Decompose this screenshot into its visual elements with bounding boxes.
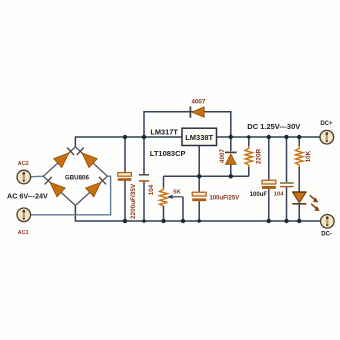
svg-text:AC1: AC1 [18, 230, 29, 236]
svg-text:LM338T: LM338T [185, 133, 213, 142]
svg-text:AC2: AC2 [18, 161, 29, 167]
svg-text:DC-: DC- [321, 231, 332, 237]
svg-text:AC 6V---24V: AC 6V---24V [7, 192, 48, 201]
svg-text:10K: 10K [305, 150, 312, 162]
svg-text:LM317T: LM317T [150, 127, 178, 136]
svg-text:104: 104 [148, 184, 155, 195]
svg-text:104: 104 [274, 191, 284, 197]
svg-text:4007: 4007 [192, 98, 206, 105]
svg-text:GBU806: GBU806 [65, 174, 90, 181]
svg-text:2200uF/35V: 2200uF/35V [130, 183, 137, 219]
svg-text:220R: 220R [256, 148, 263, 164]
svg-text:DC+: DC+ [320, 121, 333, 127]
svg-text:4007: 4007 [219, 148, 226, 163]
svg-text:100uF/25V: 100uF/25V [210, 195, 240, 201]
svg-text:100uF: 100uF [250, 192, 268, 198]
svg-text:DC 1.25V---30V: DC 1.25V---30V [247, 122, 300, 131]
svg-text:LT1083CP: LT1083CP [150, 149, 186, 158]
svg-text:5K: 5K [173, 190, 181, 196]
